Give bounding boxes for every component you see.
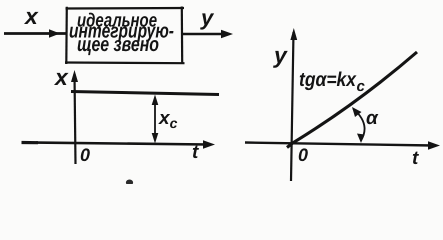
svg-text:t: t [412,148,419,169]
svg-text:щее звено: щее звено [77,33,159,56]
artifact: cropped caption mark at bottom [126,180,133,186]
svg-text:tgα=kx: tgα=kx [299,69,357,91]
right graph: y axis (vertical) [290,28,297,181]
wire: output arrow out of block [182,30,233,38]
svg-text:0: 0 [80,145,90,165]
wire: input arrow into block [4,29,66,37]
svg-text:α: α [366,108,379,129]
left graph: measurement double arrow xc [152,95,159,144]
svg-text:x: x [53,64,69,90]
left graph: t axis (horizontal) [22,140,216,148]
svg-text:x: x [23,3,39,29]
svg-text:y: y [200,5,215,30]
right graph: ramp line y = kxc t [287,52,417,148]
block U1: ideal integrating element [65,7,185,65]
svg-text:t: t [192,142,199,163]
left graph: x axis (vertical) [71,70,78,164]
right graph: angle arc with arrowheads [352,107,365,143]
right graph: t axis (horizontal) [245,141,440,149]
svg-text:y: y [273,42,288,68]
svg-text:0: 0 [298,145,308,165]
left graph: step line x=xc [71,92,219,95]
svg-text:c: c [357,78,366,95]
